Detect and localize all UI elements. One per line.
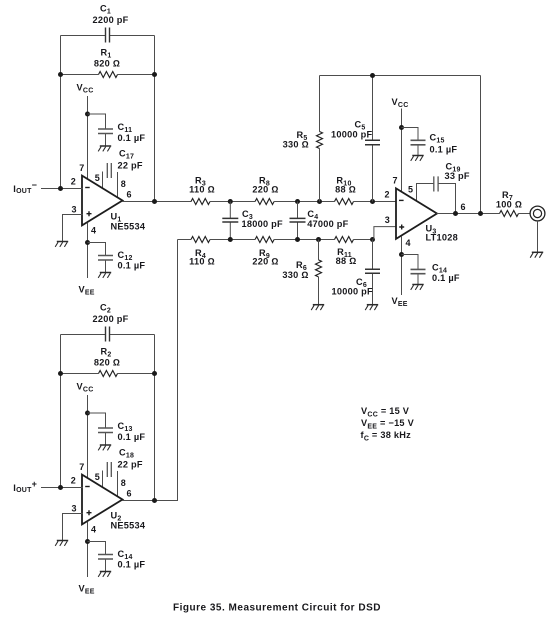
svg-text:NE5534: NE5534 [111,521,146,531]
svg-text:22 pF: 22 pF [118,161,143,171]
resistor R8 [252,176,278,205]
wire: right feedback vertical (U2) [154,335,156,501]
svg-text:VCC: VCC [392,97,409,109]
svg-text:fC = 38 kHz: fC = 38 kHz [361,430,412,442]
junction [453,211,458,216]
ground (C14 U3) [411,285,424,290]
svg-text:2: 2 [71,476,76,486]
wire: pin 4 down [87,223,89,278]
ground (C11) [98,146,111,151]
ground (C14 U2) [98,572,111,577]
svg-text:100 Ω: 100 Ω [496,200,522,210]
svg-text:VCC = 15 V: VCC = 15 V [361,406,410,418]
ground (C12) [98,273,111,278]
junction [295,199,300,204]
svg-text:10000 pF: 10000 pF [331,130,372,140]
svg-text:C17: C17 [119,149,134,161]
capacitor C13 [88,413,146,445]
ground (C15) [411,156,424,161]
resistor R10 [335,176,356,205]
wire: top feedback rail [320,75,481,77]
wire: bottom rail R9-R11 [274,239,334,241]
capacitor C3 [222,202,283,240]
capacitor C15 [402,128,458,156]
svg-text:220 Ω: 220 Ω [252,184,278,194]
op-amp U1 [82,176,146,232]
svg-text:6: 6 [126,489,131,499]
wire: bottom rail R4-R9 [210,239,255,241]
svg-text:2200 pF: 2200 pF [93,15,129,25]
node IOUT- input [13,180,83,195]
junction [295,237,300,242]
svg-text:3: 3 [385,215,390,225]
svg-text:IOUT+: IOUT+ [13,479,37,494]
ground (R6) [311,305,324,310]
wire: top rail R10 to U3 pin 2 [354,201,397,203]
power VCC (U1) [77,83,94,180]
junction [370,199,375,204]
svg-text:VEE: VEE [79,285,95,297]
svg-text:VCC: VCC [77,83,94,95]
svg-text:2: 2 [71,177,76,187]
wire: R7 to connector [519,213,531,215]
svg-text:10000 pF: 10000 pF [332,287,373,297]
junction [399,252,404,257]
wire: U3 pin 4 down [401,236,403,295]
wire: pin 3 to ground [63,215,83,242]
capacitor C6 [332,240,381,305]
resistor R6 [282,240,321,305]
op-amp U3 [396,188,458,242]
junction [228,199,233,204]
node IOUT+ input [13,479,83,494]
svg-text:C15: C15 [430,133,445,145]
junction [152,371,157,376]
svg-text:3: 3 [71,205,76,215]
wire: right feedback vertical [154,36,156,202]
svg-text:VCC: VCC [77,382,94,394]
wire: left feedback vertical [60,36,62,189]
wire: U1 output [122,201,192,203]
junction [85,112,90,117]
capacitor C2 [93,303,129,342]
resistor R11 [335,237,357,267]
ground (connector) [530,252,543,257]
svg-text:7: 7 [79,462,84,472]
wire: C2 feedback rail [61,334,155,336]
svg-text:Figure 35. Measurement Circuit: Figure 35. Measurement Circuit for DSD [173,603,381,614]
svg-text:0.1 µF: 0.1 µF [118,432,146,442]
capacitor C11 [88,114,146,146]
svg-text:3: 3 [71,504,76,514]
svg-text:C2: C2 [100,303,111,315]
capacitor C4 [290,202,349,240]
capacitor C12 [88,243,146,273]
svg-text:0.1 µF: 0.1 µF [432,273,460,283]
svg-text:8: 8 [121,478,126,488]
svg-text:4: 4 [91,226,96,236]
ground (C13) [98,445,111,450]
resistor R1 [61,48,155,78]
svg-text:IOUT−: IOUT− [13,180,37,195]
wire: bottom rail R11 to C6 node [354,239,373,241]
junction [152,199,157,204]
junction [370,237,375,242]
op-amp U2 [82,475,146,531]
wire: riser from U2 output to bottom rail [155,240,178,501]
wire: pin 4 down (U2) [87,522,89,577]
svg-text:18000 pF: 18000 pF [242,219,283,229]
svg-text:820 Ω: 820 Ω [94,358,120,368]
svg-text:33 pF: 33 pF [445,171,470,181]
resistor R5 [283,76,323,202]
wire: pin 3 to ground (U2) [63,514,83,541]
svg-text:88 Ω: 88 Ω [336,256,357,266]
junction [85,411,90,416]
junction [58,371,63,376]
resistor R4 [189,237,215,267]
connector J1 output jack [530,206,545,221]
power VCC (U3) [392,97,409,192]
svg-text:0.1 µF: 0.1 µF [118,560,146,570]
ground (U1 pin 3) [55,242,68,247]
svg-text:LT1028: LT1028 [426,233,458,243]
svg-text:8: 8 [121,179,126,189]
svg-text:820 Ω: 820 Ω [94,59,120,69]
capacitor C19 [417,162,470,214]
junction [316,237,321,242]
wire: connector to ground [537,221,539,252]
wire: U2 output [122,500,155,502]
wire: right feedback vertical [480,76,482,214]
svg-text:C1: C1 [100,4,111,16]
svg-text:4: 4 [405,238,410,248]
junction [85,240,90,245]
svg-text:0.1 µF: 0.1 µF [118,261,146,271]
wire: U3 pin 3 jog [374,227,396,240]
svg-text:2: 2 [384,190,389,200]
wire: left feedback vertical (U2) [60,335,62,488]
svg-text:88 Ω: 88 Ω [335,184,356,194]
capacitor C17 [103,149,143,198]
svg-text:NE5534: NE5534 [111,222,146,232]
resistor R3 [189,176,215,205]
ground (U2 pin 3) [55,541,68,546]
svg-text:7: 7 [392,176,397,186]
wire: top rail R8-R10 [274,201,334,203]
resistor R7 [496,190,522,217]
ground (C6) [365,305,378,310]
svg-text:7: 7 [79,163,84,173]
junction [317,199,322,204]
svg-text:110 Ω: 110 Ω [189,256,215,266]
svg-text:330 Ω: 330 Ω [282,270,308,280]
svg-text:220 Ω: 220 Ω [252,256,278,266]
junction [478,211,483,216]
resistor R2 [61,347,155,377]
capacitor C18 [103,448,143,497]
svg-text:6: 6 [460,202,465,212]
power VCC (U2) [77,382,94,479]
wire: top rail R3-R8 [210,201,255,203]
junction [85,539,90,544]
svg-text:47000 pF: 47000 pF [307,219,348,229]
svg-text:VEE: VEE [79,584,95,596]
junction [152,72,157,77]
svg-text:4: 4 [91,525,96,535]
junction [399,125,404,130]
svg-text:VEE: VEE [392,296,408,308]
junction [152,498,157,503]
svg-text:6: 6 [126,190,131,200]
svg-text:0.1 µF: 0.1 µF [430,145,458,155]
capacitor C14 (U3) [402,255,460,285]
svg-text:2200 pF: 2200 pF [93,314,129,324]
junction [58,186,63,191]
svg-text:5: 5 [95,173,100,183]
svg-text:0.1 µF: 0.1 µF [118,133,146,143]
capacitor C5 [331,76,380,202]
note: supply values [361,406,415,442]
resistor R9 [252,237,278,267]
wire: U3 output [437,213,500,215]
capacitor C14 (U2) [88,542,146,572]
capacitor C1 [93,4,129,43]
svg-text:22 pF: 22 pF [118,460,143,470]
junction [228,237,233,242]
wire: C1 feedback rail [61,35,155,37]
junction [370,73,375,78]
svg-text:C18: C18 [119,448,134,460]
wire: bottom rail start [178,239,192,241]
svg-text:110 Ω: 110 Ω [189,184,215,194]
junction [58,485,63,490]
svg-text:5: 5 [95,472,100,482]
svg-text:5: 5 [408,185,413,195]
svg-text:330 Ω: 330 Ω [283,139,309,149]
junction [58,72,63,77]
svg-text:VEE = −15 V: VEE = −15 V [361,418,415,430]
